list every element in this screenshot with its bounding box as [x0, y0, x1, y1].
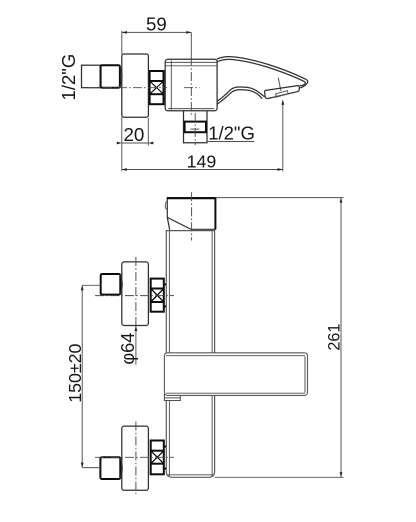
spout nose [300, 79, 308, 88]
outlet vertical centerline [194, 113, 196, 145]
svg-text:1/2"G: 1/2"G [208, 122, 255, 143]
upper fitting cap arc [120, 275, 122, 295]
upper union X-box [151, 279, 166, 312]
upper flange (front) [122, 262, 149, 326]
svg-text:150±20: 150±20 [65, 343, 85, 402]
wall male fitting rect2 (thick) [101, 65, 120, 88]
leader diagonal through aerator [278, 78, 281, 91]
column inner right line [211, 231, 213, 476]
upper male fitting (thick) [101, 274, 121, 295]
dimension 59 line [122, 31, 192, 33]
body top inner line 1 [166, 61, 217, 63]
handle hub below bar [164, 394, 180, 401]
lower fitting cap arc [120, 458, 122, 479]
svg-text:1/2"G: 1/2"G [58, 54, 79, 101]
wall male fitting rect1 [82, 65, 101, 88]
wall flange (side) [122, 54, 149, 117]
dimension 59 left arrow [122, 31, 127, 34]
261 bottom arrow [340, 472, 343, 477]
outlet horizontal tick [190, 128, 200, 130]
261 top arrow [340, 198, 343, 203]
phi64 up arrow [135, 326, 138, 331]
dimension 149 right arrow [278, 168, 283, 171]
spout top outer curve [217, 57, 306, 80]
dimension 59 right arrow [186, 31, 191, 34]
spout underside outer S [217, 87, 264, 101]
lower male fitting (thick) [100, 457, 120, 479]
handle bar (white fill, front) [164, 353, 307, 396]
svg-text:φ64: φ64 [118, 333, 138, 365]
column inner left line [168, 231, 170, 476]
union nut X-box (side) [150, 71, 166, 104]
150±20 bottom reference line [82, 467, 100, 469]
label underline [207, 141, 254, 143]
fitting cap arc [120, 66, 122, 88]
dimension 20 left arrow [117, 142, 122, 145]
spout front aerator arc [165, 201, 167, 210]
extension line left (wall plane) [121, 31, 123, 54]
outlet nut (thick) [185, 122, 206, 133]
horizontal axis centerline (side) [88, 87, 167, 89]
extension line x=121.8 lower run to 149 dim [121, 117, 123, 171]
261 bottom extension line [215, 476, 344, 478]
spout front rect (white fill) [167, 198, 215, 230]
lower flange centerline (vertical) [135, 422, 137, 495]
handle inner bottom line [166, 392, 305, 394]
dimension 20 right arrow [148, 142, 153, 145]
column (body front) [166, 231, 214, 478]
body top inner line 2 [166, 65, 217, 67]
spout top inner curve [217, 59, 305, 85]
extension line right (spout outlet axis) [282, 101, 284, 172]
svg-text:261: 261 [326, 324, 344, 351]
svg-text:149: 149 [187, 151, 217, 171]
dimension 20 line [122, 142, 149, 144]
upper flange centerline (vertical) [135, 257, 137, 326]
outlet tube (bottom) [184, 111, 208, 143]
handle inner right line [304, 356, 306, 392]
aerator insert [276, 91, 289, 98]
body center tick [184, 87, 200, 89]
lower flange (front) [122, 426, 149, 490]
outlet up arrow [281, 100, 284, 105]
upper axis centerline [95, 295, 174, 297]
svg-text:20: 20 [123, 124, 144, 145]
150±20 top arrow [81, 285, 84, 290]
spout front centerline [191, 192, 193, 240]
column inner bottom line [168, 474, 213, 476]
150±20 bottom arrow [81, 463, 84, 468]
spout front corner line [167, 217, 169, 229]
body vertical centerline [190, 32, 192, 57]
aerator housing [265, 86, 300, 99]
handle inner top line [166, 355, 305, 357]
lower axis centerline [95, 456, 174, 458]
body left inner vertical [170, 61, 172, 110]
dimension 149 line [122, 169, 283, 171]
261 top extension line [216, 197, 344, 199]
spout front thick top edge [167, 197, 216, 199]
faucet body (side) [165, 59, 217, 111]
150±20 dimension line [81, 285, 83, 467]
261 dimension line [340, 198, 342, 478]
spout front right edge thick [214, 198, 216, 230]
body bottom inner line [168, 108, 214, 110]
handle hub inner line [164, 397, 180, 399]
dimension 149 left arrow [122, 168, 127, 171]
spout underside inner S [217, 90, 262, 104]
150±20 top reference line [82, 284, 101, 286]
lower union X-box [151, 441, 166, 475]
extension line right of 20 [147, 118, 149, 146]
svg-text:59: 59 [146, 14, 167, 35]
